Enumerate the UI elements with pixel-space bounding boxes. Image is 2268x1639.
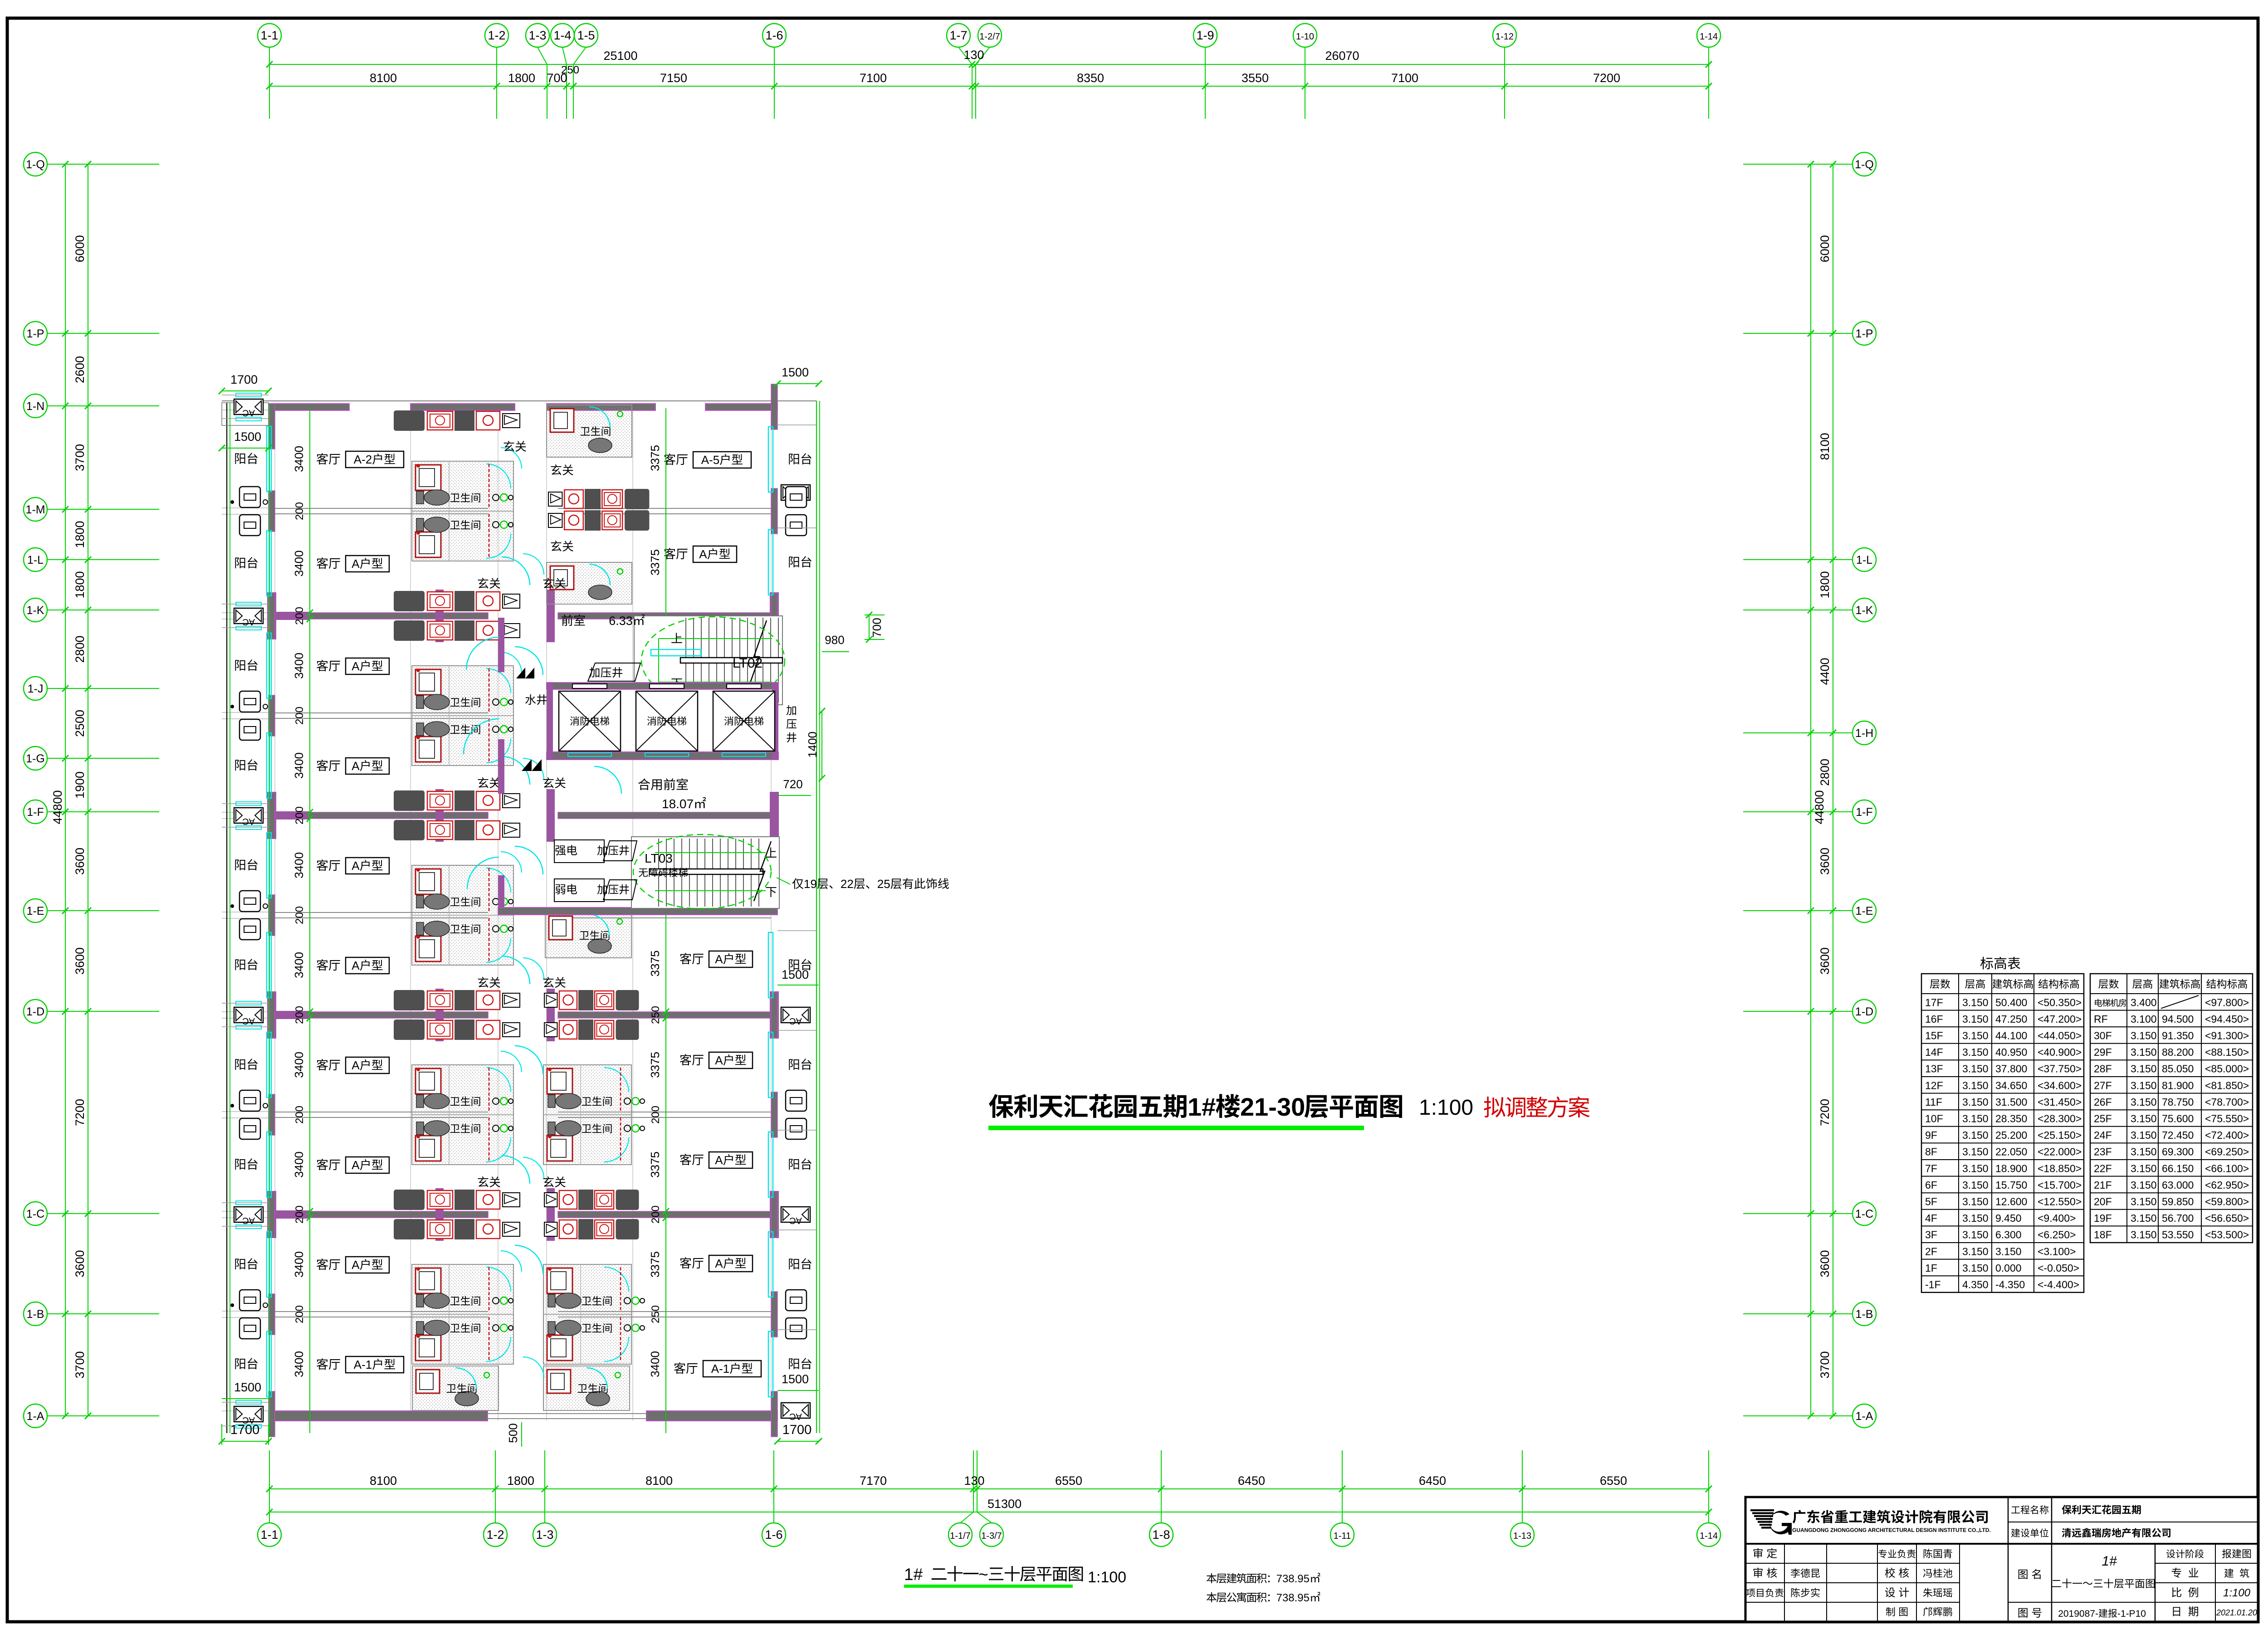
svg-text:6000: 6000 [1818,235,1832,262]
label 合用前室 18.07㎡ [638,778,650,790]
svg-text:51300: 51300 [987,1497,1022,1511]
bathroom pair row 0 left wing [412,461,513,561]
svg-text:<9.400>: <9.400> [2038,1212,2076,1224]
axis line 1-N left [47,405,159,406]
room label left unit 4 [317,760,328,771]
svg-text:7150: 7150 [660,71,687,85]
svg-text:1-K: 1-K [27,604,44,617]
kitchens below top wall [394,410,425,431]
svg-text:3.150: 3.150 [2131,1030,2157,1042]
svg-text:980: 980 [825,633,844,647]
svg-text:1-E: 1-E [27,905,44,917]
svg-text:30F: 30F [2094,1030,2112,1042]
axis bubble 1-1 top [258,24,281,47]
svg-text:A: A [352,759,360,773]
room label left unit 7 [317,1059,328,1070]
svg-text:3600: 3600 [73,848,87,875]
svg-text:75.600: 75.600 [2162,1113,2194,1125]
axis line 1-G left [47,758,159,759]
svg-text:1-K: 1-K [1856,604,1873,617]
room label right wing y=1013 [664,454,675,465]
svg-text:85.050: 85.050 [2162,1063,2194,1075]
svg-text:4400: 4400 [1818,658,1832,685]
axis line 1-D left [47,1011,159,1012]
svg-text:9F: 9F [1925,1129,1937,1141]
svg-text:<25.150>: <25.150> [2038,1129,2082,1141]
svg-text:2800: 2800 [1818,759,1832,786]
svg-text:6.300: 6.300 [1995,1229,2022,1241]
svg-text:3.150: 3.150 [1962,1079,1989,1091]
bathroom pair row 2 left wing [412,865,513,965]
company logo ZG [1750,1509,1774,1511]
svg-text:1-J: 1-J [28,683,44,695]
svg-text:28F: 28F [2094,1063,2112,1075]
svg-text:1-H: 1-H [1855,727,1873,740]
svg-text:A: A [715,1257,723,1270]
axis bubble 1-1/7 bottom [948,1523,972,1546]
axis bubble 1-C right [1853,1202,1876,1225]
axis line 1-F right [1743,811,1853,812]
axis bubble 1-4 top [551,24,574,47]
svg-text:25.200: 25.200 [1995,1129,2027,1141]
svg-text:LT02: LT02 [733,656,763,671]
svg-text:A: A [352,959,360,972]
corridor door arcs [466,637,499,670]
axis bubble 1-J left [24,677,47,700]
svg-text:3.150: 3.150 [1962,1245,1989,1257]
svg-text:1:100: 1:100 [1088,1569,1126,1586]
svg-text:1-14: 1-14 [1700,1531,1718,1541]
svg-text:13F: 13F [1925,1063,1943,1075]
svg-text:17F: 17F [1925,996,1943,1008]
svg-text:3.150: 3.150 [1962,1162,1989,1174]
room label right wing y=2114 [680,953,691,964]
svg-text:<94.450>: <94.450> [2205,1013,2249,1025]
svg-text:3.150: 3.150 [1962,1229,1989,1241]
svg-text:81.900: 81.900 [2162,1079,2194,1091]
room label left unit 2 [317,557,328,569]
svg-text:200: 200 [293,806,306,824]
svg-text:<18.850>: <18.850> [2038,1162,2082,1174]
axis bubble 1-F left [24,800,47,824]
elevation table title 标高表 [1980,957,1993,970]
svg-text:1-7: 1-7 [949,29,967,42]
svg-text:1900: 1900 [73,771,87,799]
axis line 1-Q right [1743,164,1853,165]
field 制图 [1886,1607,1895,1616]
svg-text:59.850: 59.850 [2162,1196,2194,1208]
svg-text:26070: 26070 [1325,49,1359,63]
fan symbol 2 [522,759,542,771]
top dimension line 1 (totals) [269,64,1709,65]
svg-text:3600: 3600 [1818,1250,1832,1277]
core left wall [498,618,504,672]
svg-text:1800: 1800 [73,521,87,548]
svg-text:3375: 3375 [648,951,662,977]
title block outer box [1745,1497,2258,1622]
elevator 消防电梯 2 [636,691,698,751]
svg-text:3.150: 3.150 [1962,1113,1989,1125]
name 李德昆 [1791,1569,1800,1578]
svg-text:3.150: 3.150 [1962,1030,1989,1042]
svg-text:1-6: 1-6 [765,1528,782,1541]
svg-text:22: 22 [841,877,854,891]
svg-text:3375: 3375 [648,1251,662,1278]
svg-text:19F: 19F [2094,1212,2112,1224]
name 陈国青 [1924,1549,1932,1558]
axis line 1-1 through plan [269,404,270,1433]
light wall row 4 [275,1311,488,1312]
bathroom pair row 3 right wing [543,1065,631,1165]
svg-text:200: 200 [293,1205,306,1224]
svg-text:1-Q: 1-Q [1855,158,1874,171]
svg-text:1-6: 1-6 [765,29,783,42]
svg-text:200: 200 [293,1106,306,1124]
axis bubble 1-3/7 bottom [980,1523,1003,1546]
svg-text:<59.800>: <59.800> [2205,1196,2249,1208]
heavy wall row 1 [275,613,488,619]
svg-text:200: 200 [650,1106,662,1124]
svg-text:1-14: 1-14 [1700,32,1718,42]
svg-text:1500: 1500 [782,968,809,981]
kitchen cluster row 3 right wing [616,990,639,1010]
svg-text:1-A: 1-A [1856,1410,1873,1423]
axis line 1-4 top [562,47,567,64]
svg-text:1:100: 1:100 [2223,1587,2251,1599]
svg-text:A: A [352,1258,360,1272]
svg-text:AC: AC [242,1016,255,1026]
svg-text:3.150: 3.150 [1962,996,1989,1008]
svg-text:7100: 7100 [1391,71,1418,85]
value 建筑 [2224,1569,2234,1578]
axis bubble 1-B right [1853,1302,1876,1326]
room label left unit 3 [317,660,328,671]
svg-text:6000: 6000 [73,235,87,262]
svg-text:7200: 7200 [1593,71,1620,85]
svg-text:3.150: 3.150 [2131,1079,2157,1091]
field 建设单位 [2011,1528,2020,1537]
elevator block [547,683,778,760]
axis line 1-A right [1743,1415,1853,1416]
bottom dimension line total [269,1512,1709,1512]
axis line 1-1/7 bottom [960,1512,973,1523]
field 设计 [1885,1587,1895,1597]
svg-text:<91.300>: <91.300> [2205,1030,2249,1042]
axis line 1-P right [1743,333,1853,334]
svg-text:72.450: 72.450 [2162,1129,2194,1141]
axis bubble 1-7 top [947,24,970,47]
svg-text:3400: 3400 [292,952,306,978]
svg-text:3400: 3400 [292,446,306,472]
svg-text:3400: 3400 [292,551,306,577]
label 加压井 right vertical [787,705,796,715]
axis bubble 1-L left [24,548,47,571]
axis line 1-L left [47,559,159,560]
svg-text:1-12: 1-12 [1496,32,1514,42]
svg-text:4.350: 4.350 [1962,1279,1989,1291]
light wall row 2 [275,912,488,913]
room label right wing y=1221 [664,548,675,559]
svg-text:7100: 7100 [860,71,887,85]
stair LT02 [634,616,782,705]
svg-text:1700: 1700 [230,1423,260,1437]
svg-text:1#: 1# [2102,1554,2117,1569]
svg-text:3.150: 3.150 [1962,1096,1989,1108]
svg-text:25100: 25100 [603,49,637,63]
svg-text:1-L: 1-L [27,554,44,566]
svg-text:3.150: 3.150 [1962,1063,1989,1075]
svg-text:18F: 18F [2094,1229,2112,1241]
label 加压井 mid1 [597,845,607,855]
svg-text:-1F: -1F [1925,1279,1941,1291]
bathroom right below core [545,912,631,958]
svg-text:20F: 20F [2094,1196,2112,1208]
svg-text:<75.550>: <75.550> [2205,1113,2249,1125]
svg-text:1500: 1500 [782,1372,809,1386]
svg-text:3.150: 3.150 [2131,1196,2157,1208]
axis line 1-F left [47,811,159,812]
svg-text:3.150: 3.150 [1962,1129,1989,1141]
svg-text:3.150: 3.150 [2131,1129,2157,1141]
field 审定 [1754,1548,1763,1558]
bathroom bottom right A-1 [543,1366,630,1410]
axis bubble 1-Q right [1853,152,1876,176]
axis line 1-10 top [1305,47,1305,119]
label 水井 [525,694,536,705]
svg-text:78.750: 78.750 [2162,1096,2194,1108]
svg-text:6550: 6550 [1600,1474,1627,1488]
main title [989,1094,1014,1118]
svg-text:63.000: 63.000 [2162,1179,2194,1191]
svg-text:7200: 7200 [73,1099,87,1126]
svg-text:200: 200 [293,502,306,520]
svg-text:9.450: 9.450 [1995,1212,2022,1224]
svg-text:200: 200 [293,607,306,625]
axis line 1-1 bottom [269,1450,270,1523]
main title red note 拟调整方案 [1484,1097,1505,1117]
axis line 1-2 top [496,47,497,119]
svg-text:0.000: 0.000 [1995,1262,2022,1274]
svg-text:5F: 5F [1925,1196,1937,1208]
svg-text:3.150: 3.150 [2131,1096,2157,1108]
axis line 1-12 top [1504,47,1505,119]
bathroom pair row 1 left wing [412,666,513,766]
svg-text:6F: 6F [1925,1179,1937,1191]
label 强电 [555,845,566,855]
svg-text:1#: 1# [904,1565,923,1584]
svg-text:1-11: 1-11 [1334,1531,1351,1541]
right dim chain 3375/250 [665,912,666,1433]
svg-text:1-1/7: 1-1/7 [950,1531,971,1541]
svg-text:720: 720 [783,777,802,791]
drawing name 二十一~三十层平面图 [2052,1580,2061,1587]
axis line 1-14 bottom [1708,1450,1709,1523]
svg-text:3.100: 3.100 [2131,1013,2157,1025]
room label left unit 6 [317,959,328,971]
svg-text:LT03: LT03 [645,851,673,865]
axis line 1-C right [1743,1213,1853,1214]
room label right wing y=2337 [680,1054,691,1065]
axis line 1-3 top [538,47,547,64]
svg-text:1500: 1500 [234,430,261,444]
svg-text:1-N: 1-N [26,400,44,413]
axis line 1-P left [47,333,159,334]
svg-text:AC: AC [242,816,255,826]
axis line 1-11 bottom [1342,1450,1343,1523]
svg-text:19: 19 [804,877,817,891]
svg-text:<22.000>: <22.000> [2038,1146,2082,1158]
svg-text:<40.900>: <40.900> [2038,1046,2082,1058]
svg-text:7F: 7F [1925,1162,1937,1174]
svg-text:66.150: 66.150 [2162,1162,2194,1174]
svg-text:1#: 1# [1188,1093,1216,1121]
svg-text:22F: 22F [2094,1162,2112,1174]
axis bubble 1-9 top [1193,24,1217,47]
right balcony [781,485,810,500]
axis bubble 1-M left [24,498,47,521]
svg-text:27F: 27F [2094,1079,2112,1091]
svg-text:1800: 1800 [73,571,87,598]
room partition grid [222,410,269,410]
svg-text:3.150: 3.150 [1962,1196,1989,1208]
svg-text:6550: 6550 [1055,1474,1082,1488]
room label left unit 1 [317,453,328,464]
axis line 1-2/7 top [976,47,990,64]
room label left unit 5 [317,859,328,871]
svg-text:3600: 3600 [73,947,87,975]
svg-text:3400: 3400 [292,1052,306,1078]
kitchen cluster row 1 left wing [394,591,425,611]
axis bubble 1-K left [24,598,47,622]
svg-text:A: A [352,1158,360,1172]
svg-text:A: A [715,1153,723,1167]
svg-text:A-1: A-1 [711,1362,729,1376]
svg-text:8100: 8100 [370,1474,397,1488]
top outer wall [222,400,816,401]
svg-text:<50.350>: <50.350> [2038,996,2082,1008]
axis line 1-K left [47,610,159,610]
axis bubble 1-E right [1853,899,1876,922]
svg-text:<6.250>: <6.250> [2038,1229,2076,1241]
svg-text:47.250: 47.250 [1995,1013,2027,1025]
bottom outer wall [269,1411,488,1421]
svg-text:1-2/7: 1-2/7 [979,32,1000,42]
top dimension line 2 (segments) [269,86,1709,87]
svg-text:<85.000>: <85.000> [2205,1063,2249,1075]
svg-text:3F: 3F [1925,1229,1937,1241]
axis bubble 1-2/7 top [978,24,1002,47]
svg-text:15F: 15F [1925,1030,1943,1042]
svg-text:37.800: 37.800 [1995,1063,2027,1075]
svg-text:3400: 3400 [648,1351,662,1377]
svg-text:A: A [352,859,360,873]
axis line 1-8 bottom [1161,1450,1162,1523]
svg-text:3.150: 3.150 [2131,1113,2157,1125]
svg-text:3375: 3375 [648,445,662,471]
svg-text:1-B: 1-B [1856,1308,1873,1321]
svg-text:1-D: 1-D [26,1005,44,1018]
caption area line2 [1207,1592,1217,1602]
axis bubble 1-F right [1853,800,1876,824]
plan left balcony outer edge [226,403,228,1433]
axis bubble 1-5 top [574,24,598,47]
axis bubble 1-P left [24,322,47,345]
svg-text:A: A [699,547,707,561]
svg-text:700: 700 [870,618,884,637]
svg-text:3400: 3400 [292,1251,306,1278]
elevator 消防电梯 1 [559,691,621,751]
svg-text:1F: 1F [1925,1262,1937,1274]
axis bubble 1-G left [24,746,47,770]
svg-text:3550: 3550 [1242,71,1269,85]
svg-text:AC: AC [789,1016,802,1026]
svg-text:AC: AC [789,1411,802,1421]
svg-text:A: A [352,659,360,673]
svg-text:250: 250 [650,1305,662,1323]
room label left unit 9 [317,1259,328,1270]
axis bubble 1-N left [24,394,47,418]
svg-text:3600: 3600 [73,1250,87,1277]
svg-text:<47.200>: <47.200> [2038,1013,2082,1025]
svg-text:200: 200 [650,1205,662,1224]
svg-text:3700: 3700 [1818,1351,1832,1378]
axis line 1-3/7 bottom [977,1512,992,1523]
axis bubble 1-6 bottom [762,1523,786,1546]
svg-text:10F: 10F [1925,1113,1943,1125]
svg-text:738.95: 738.95 [1276,1573,1310,1585]
plan right outer edge [816,401,817,1433]
svg-text:21-30: 21-30 [1240,1093,1305,1121]
light wall row 3 [275,1112,488,1112]
svg-text:21F: 21F [2094,1179,2112,1191]
axis bubble 1-8 bottom [1149,1523,1173,1546]
svg-text:1400: 1400 [806,732,819,758]
svg-text:3600: 3600 [1818,848,1832,875]
axis bubble 1-K right [1853,598,1876,622]
axis bubble 1-3 bottom [533,1523,557,1546]
axis bubble 1-B left [24,1302,47,1326]
svg-text:7200: 7200 [1818,1099,1832,1126]
axis bubble 1-E left [24,899,47,922]
axis line 1-B right [1743,1313,1853,1314]
svg-text:1-B: 1-B [27,1308,44,1321]
svg-text:1-A: 1-A [27,1410,44,1423]
svg-text:<34.600>: <34.600> [2038,1079,2082,1091]
bathroom bottom left A-1 [412,1366,499,1410]
heavy wall row 2 [275,812,488,819]
field 日期 [2173,1607,2180,1616]
svg-text:3.150: 3.150 [2131,1063,2157,1075]
svg-text:250: 250 [650,1006,662,1024]
svg-text:2019087-: 2019087- [2058,1609,2098,1619]
svg-text:3.150: 3.150 [1962,1046,1989,1058]
svg-text:3.150: 3.150 [1995,1245,2022,1257]
svg-text:44.100: 44.100 [1995,1030,2027,1042]
svg-text:50.400: 50.400 [1995,996,2027,1008]
svg-text:12.600: 12.600 [1995,1196,2027,1208]
svg-text:1-1: 1-1 [260,29,278,42]
svg-text:1-2: 1-2 [486,1528,504,1541]
label 前室 6.33㎡ [562,615,572,626]
field 工程名称 [2011,1507,2020,1513]
svg-text:94.500: 94.500 [2162,1013,2194,1025]
svg-text:18.07: 18.07 [662,797,694,811]
svg-text:<3.100>: <3.100> [2038,1245,2076,1257]
bathroom pair row 4 right wing [543,1264,631,1364]
svg-text:<-4.400>: <-4.400> [2038,1279,2079,1291]
bathroom pair row 4 left wing [412,1264,513,1364]
svg-text:500: 500 [506,1423,520,1443]
